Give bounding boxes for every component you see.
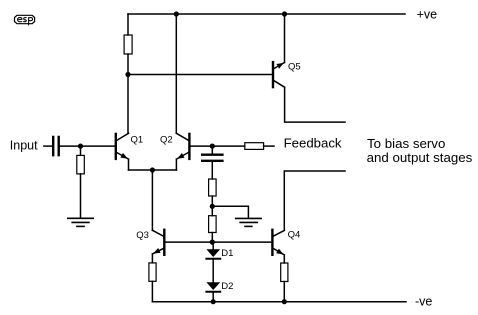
svg-text:and output stages: and output stages <box>367 150 473 165</box>
svg-text:Q1: Q1 <box>131 135 144 146</box>
svg-text:Q2: Q2 <box>160 135 173 146</box>
svg-text:+ve: +ve <box>417 8 438 22</box>
svg-text:D1: D1 <box>221 248 233 259</box>
svg-text:Q3: Q3 <box>136 230 149 241</box>
svg-text:To bias servo: To bias servo <box>367 136 445 151</box>
svg-text:Q4: Q4 <box>288 230 301 241</box>
svg-text:Q5: Q5 <box>288 62 301 73</box>
svg-text:Input: Input <box>10 138 38 152</box>
svg-text:-ve: -ve <box>415 294 432 308</box>
svg-text:Feedback: Feedback <box>284 135 342 150</box>
svg-text:D2: D2 <box>221 281 233 292</box>
